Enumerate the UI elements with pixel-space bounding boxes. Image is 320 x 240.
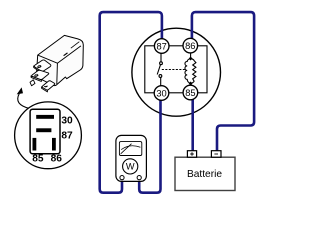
svg-text:87: 87 <box>61 130 73 141</box>
svg-text:30: 30 <box>61 116 73 127</box>
svg-text:30: 30 <box>156 88 166 98</box>
svg-text:85: 85 <box>185 88 195 98</box>
svg-text:86: 86 <box>185 41 195 51</box>
svg-text:Batterie: Batterie <box>187 169 222 180</box>
svg-text:87: 87 <box>157 41 167 51</box>
svg-text:W: W <box>126 162 135 172</box>
svg-text:85: 85 <box>32 154 44 165</box>
svg-text:86: 86 <box>51 154 63 165</box>
